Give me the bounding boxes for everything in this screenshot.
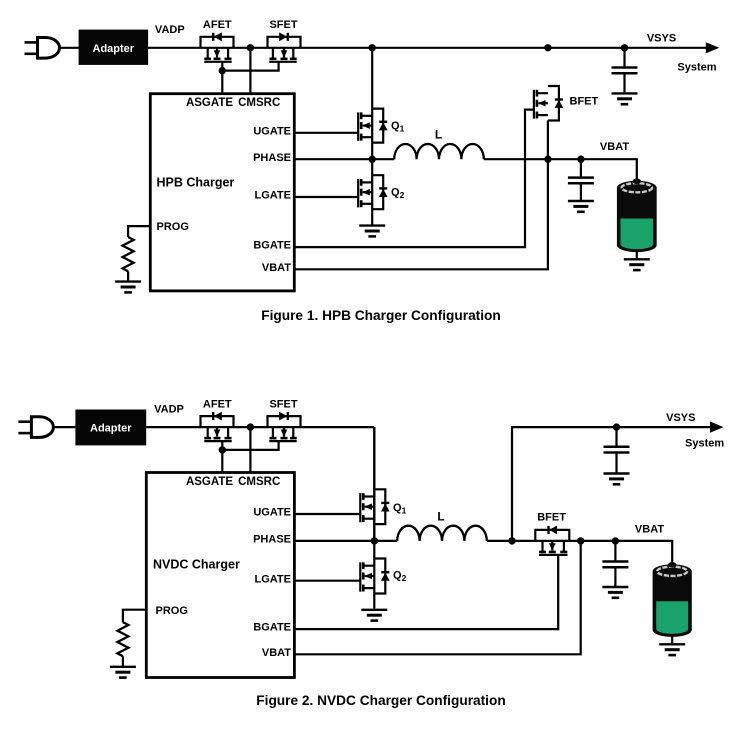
VSYS arrowhead [706, 42, 720, 53]
node: BFET source [577, 537, 584, 544]
node: VBAT capacitor [577, 156, 584, 163]
wire: CMSRC pin [249, 48, 251, 94]
wire: SFET gate link [222, 441, 278, 450]
node: BFET drain on rail [544, 44, 551, 51]
svg-text:LGATE: LGATE [255, 573, 291, 585]
svg-text:PHASE: PHASE [253, 534, 291, 546]
ground at PROG resistor [115, 280, 141, 282]
NVDC charger IC box U2 [146, 473, 294, 678]
svg-text:VBAT: VBAT [635, 524, 664, 536]
wire: CMSRC pin [249, 427, 251, 472]
ground at VSYS capacitor [604, 472, 630, 474]
wire VBAT pin to BFET source node [294, 541, 580, 654]
node: gate junction [219, 446, 226, 453]
transistor BFET [535, 526, 569, 555]
wire LGATE [294, 196, 358, 198]
transistor AFET [201, 412, 234, 441]
svg-text:BFET: BFET [537, 512, 566, 524]
figure 2: AC plug [18, 420, 31, 423]
svg-text:Q2: Q2 [393, 570, 407, 584]
figure 1: AC plug [25, 41, 38, 44]
transistor SFET [268, 412, 301, 441]
ground at Q2 source [359, 224, 385, 226]
wire: VADP rail / VSYS rail [148, 47, 707, 49]
svg-text:PROG: PROG [157, 221, 189, 233]
svg-text:Q1: Q1 [391, 120, 405, 134]
wire: SFET gate link [222, 62, 278, 71]
svg-text:Figure 2. NVDC Charger Configu: Figure 2. NVDC Charger Configuration [256, 693, 505, 708]
Adapter block [75, 410, 146, 446]
transistor AFET [201, 32, 234, 61]
node: PHASE [371, 537, 378, 544]
capacitor VSYS C3 [615, 427, 617, 447]
capacitor VBAT C2 [580, 159, 582, 177]
svg-text:System: System [685, 437, 724, 449]
resistor R PROG [123, 237, 134, 271]
wire PROG to resistor [123, 610, 146, 623]
inductor L [397, 526, 487, 541]
battery pack [653, 564, 692, 637]
wire BGATE to BFET gate [294, 555, 558, 629]
svg-text:AFET: AFET [203, 398, 232, 410]
svg-text:BGATE: BGATE [253, 240, 291, 252]
svg-text:AFET: AFET [203, 19, 232, 31]
svg-text:VBAT: VBAT [600, 141, 629, 153]
svg-text:VBAT: VBAT [262, 647, 291, 659]
wire: AFET gate to ASGATE pin [221, 441, 223, 472]
transistor Q1 [360, 489, 389, 524]
battery pack [617, 181, 657, 252]
node: BFET source / VBAT [544, 156, 551, 163]
wire LGATE [294, 580, 360, 582]
transistor BFET [534, 86, 563, 121]
svg-text:CMSRC: CMSRC [238, 476, 280, 488]
svg-text:VSYS: VSYS [647, 32, 676, 44]
VSYS arrowhead [710, 422, 724, 433]
svg-text:UGATE: UGATE [253, 507, 291, 519]
wire: inductor through BFET to battery [487, 541, 672, 564]
wire PHASE to phase node [294, 158, 394, 160]
node: CMSRC on rail [247, 44, 254, 51]
wire: AFET gate to ASGATE pin [221, 62, 223, 94]
HPB charger IC box U1 [150, 94, 294, 291]
wire PHASE to phase node [294, 540, 397, 542]
node: PHASE [369, 156, 376, 163]
svg-text:VSYS: VSYS [666, 412, 695, 424]
node: VBAT capacitor [612, 537, 619, 544]
svg-text:SFET: SFET [269, 398, 297, 410]
capacitor VSYS C1 [623, 48, 625, 68]
inductor L [394, 144, 484, 159]
svg-text:Q2: Q2 [391, 186, 405, 200]
wire: VADP rail [146, 426, 374, 428]
ground at VSYS capacitor [612, 92, 638, 94]
node: CMSRC on rail [247, 423, 254, 430]
wire: rail corner down to Q1 [373, 427, 375, 541]
wire resistor to ground [127, 271, 129, 281]
svg-text:System: System [677, 61, 716, 73]
svg-text:Adapter: Adapter [93, 43, 135, 55]
svg-text:ASGATE: ASGATE [186, 476, 233, 488]
svg-text:VADP: VADP [155, 24, 185, 36]
transistor Q2 [360, 559, 389, 594]
wire BGATE to BFET gate [294, 110, 534, 248]
wire: Q1/Q2 drain-source axis [371, 48, 373, 225]
wire UGATE [294, 513, 360, 515]
transistor Q1 [358, 109, 387, 143]
svg-text:BFET: BFET [570, 96, 599, 108]
svg-text:NVDC Charger: NVDC Charger [153, 558, 240, 572]
svg-text:Q1: Q1 [393, 502, 407, 516]
wire: Q1/Q2 axis [373, 427, 375, 608]
svg-text:PHASE: PHASE [253, 152, 291, 164]
svg-text:L: L [437, 509, 444, 523]
svg-text:BGATE: BGATE [253, 622, 291, 634]
node: Q1 drain on rail [369, 44, 376, 51]
svg-text:Figure 1. HPB Charger Configur: Figure 1. HPB Charger Configuration [261, 308, 501, 323]
wire PROG to resistor [128, 226, 150, 237]
svg-text:UGATE: UGATE [253, 125, 291, 137]
wire UGATE [294, 132, 358, 134]
resistor R PROG [117, 622, 128, 656]
transistor Q2 [358, 175, 387, 209]
svg-text:Adapter: Adapter [90, 422, 132, 434]
svg-text:VBAT: VBAT [262, 262, 291, 274]
node: VSYS capacitor on rail [621, 44, 628, 51]
svg-text:HPB Charger: HPB Charger [157, 176, 235, 190]
ground at Q2 source [361, 609, 387, 611]
svg-text:LGATE: LGATE [255, 190, 291, 202]
transistor SFET [268, 32, 301, 61]
svg-text:ASGATE: ASGATE [186, 97, 233, 109]
svg-text:PROG: PROG [156, 605, 188, 617]
svg-text:VADP: VADP [154, 404, 184, 416]
wire plug to adapter [53, 426, 75, 428]
svg-text:L: L [435, 128, 442, 142]
svg-text:CMSRC: CMSRC [238, 97, 280, 109]
Adapter block [79, 30, 149, 65]
wire: inductor to battery node VBAT [484, 159, 637, 183]
ground at VBAT capacitor [568, 200, 594, 202]
wire: BFET axis and VBAT pin return [294, 121, 548, 270]
wire plug to adapter [60, 47, 79, 49]
wire resistor to ground [122, 656, 124, 666]
ground at PROG resistor [110, 666, 136, 668]
wire: riser to VSYS rail [512, 427, 712, 541]
svg-text:SFET: SFET [269, 19, 297, 31]
node: VSYS capacitor on rail [613, 423, 620, 430]
node: gate junction [219, 67, 226, 74]
node: VSYS riser junction [508, 537, 515, 544]
capacitor VBAT C4 [614, 541, 616, 562]
ground at VBAT capacitor [602, 586, 628, 588]
